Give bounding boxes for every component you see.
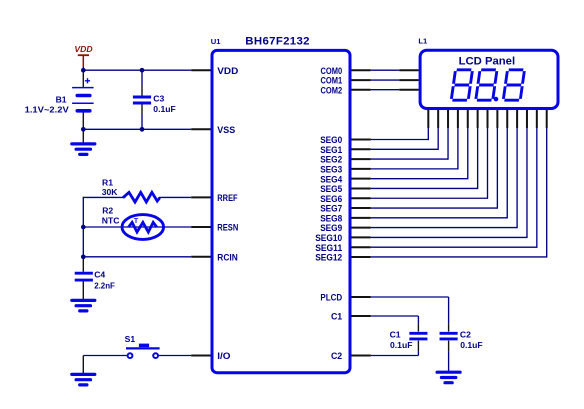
- svg-text:0.1uF: 0.1uF: [153, 104, 175, 114]
- svg-text:SEG7: SEG7: [320, 204, 342, 214]
- svg-text:B1: B1: [56, 94, 67, 104]
- svg-text:2.2nF: 2.2nF: [94, 280, 115, 290]
- svg-text:RESN: RESN: [217, 223, 238, 233]
- svg-text:R1: R1: [102, 178, 113, 188]
- svg-text:0.1uF: 0.1uF: [460, 340, 482, 350]
- svg-text:SEG2: SEG2: [320, 155, 342, 165]
- svg-text:SEG10: SEG10: [315, 233, 342, 243]
- svg-text:COM1: COM1: [321, 76, 343, 86]
- svg-text:RREF: RREF: [217, 193, 238, 203]
- svg-text:NTC: NTC: [102, 216, 120, 226]
- svg-text:SEG6: SEG6: [320, 194, 342, 204]
- svg-text:VDD: VDD: [217, 66, 238, 76]
- svg-text:SEG9: SEG9: [320, 223, 342, 233]
- svg-text:SEG8: SEG8: [320, 213, 342, 223]
- svg-text:U1: U1: [211, 37, 221, 46]
- svg-text:SEG5: SEG5: [320, 184, 342, 194]
- svg-text:VDD: VDD: [74, 44, 92, 54]
- svg-text:RCIN: RCIN: [217, 252, 238, 262]
- svg-text:I/O: I/O: [217, 351, 230, 361]
- svg-text:SEG11: SEG11: [315, 243, 342, 253]
- svg-text:COM0: COM0: [321, 66, 343, 76]
- svg-text:SEG12: SEG12: [315, 253, 342, 263]
- svg-text:C2: C2: [460, 330, 471, 340]
- svg-text:VSS: VSS: [217, 125, 235, 135]
- svg-text:L1: L1: [418, 36, 428, 45]
- svg-text:T: T: [134, 216, 139, 225]
- svg-text:LCD Panel: LCD Panel: [459, 55, 515, 67]
- svg-text:1.1V~2.2V: 1.1V~2.2V: [25, 105, 69, 115]
- svg-text:BH67F2132: BH67F2132: [245, 36, 310, 48]
- svg-text:C4: C4: [94, 269, 105, 279]
- svg-text:30K: 30K: [102, 187, 119, 197]
- svg-text:SEG3: SEG3: [320, 164, 342, 174]
- svg-text:C2: C2: [331, 351, 342, 361]
- svg-text:C1: C1: [390, 330, 401, 340]
- svg-text:SEG0: SEG0: [320, 135, 342, 145]
- svg-text:COM2: COM2: [321, 85, 343, 95]
- svg-text:C3: C3: [153, 93, 164, 103]
- svg-text:SEG1: SEG1: [320, 145, 342, 155]
- svg-text:S1: S1: [125, 334, 136, 344]
- svg-text:C1: C1: [331, 312, 342, 322]
- svg-text:0.1uF: 0.1uF: [390, 340, 412, 350]
- svg-text:PLCD: PLCD: [320, 293, 342, 303]
- svg-text:R2: R2: [102, 206, 113, 216]
- svg-text:SEG4: SEG4: [320, 174, 342, 184]
